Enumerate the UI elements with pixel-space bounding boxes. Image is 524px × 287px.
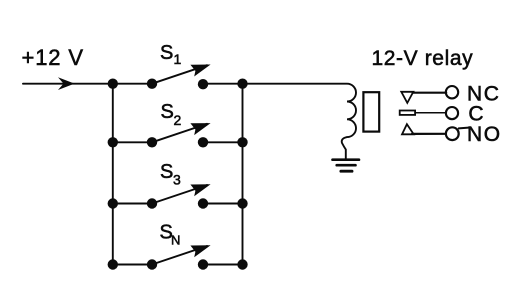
terminal C [446, 107, 458, 119]
svg-text:NO: NO [467, 123, 502, 146]
ground [333, 160, 360, 172]
terminal NO [446, 127, 459, 140]
wire NC contact [413, 92, 446, 94]
wire row1 left bus to S1 pole [113, 83, 152, 85]
node SN pole [147, 259, 157, 269]
switch S3 blade [152, 185, 207, 204]
wire row3 S3 throw to right bus [203, 203, 243, 205]
label S1 [160, 42, 182, 67]
NC contact triangle [401, 92, 413, 103]
svg-text:3: 3 [173, 172, 181, 188]
label S2 [161, 101, 182, 128]
node S3 throw [198, 198, 208, 208]
wire right bus vertical [242, 84, 244, 265]
input current arrow [58, 77, 75, 90]
wire input +12V feed [23, 83, 113, 85]
terminal NC [446, 86, 458, 98]
svg-text:S: S [160, 161, 173, 183]
NO contact triangle [402, 124, 414, 134]
C armature bar [400, 111, 415, 115]
svg-text:12-V relay: 12-V relay [372, 47, 474, 70]
relay armature box [363, 92, 379, 131]
node S1 throw [198, 79, 208, 89]
node row3 left bus junction [108, 198, 118, 208]
wire row1 S1 throw to right bus [203, 83, 243, 85]
svg-text:2: 2 [174, 112, 182, 128]
svg-text:S: S [161, 101, 174, 123]
node S2 pole [147, 137, 157, 147]
wire C contact [415, 112, 446, 114]
svg-text:N: N [171, 233, 180, 248]
wire row4 SN throw to right bus [203, 264, 243, 266]
node SN throw [198, 259, 208, 269]
switch S2 blade [152, 124, 207, 143]
node row1 left bus junction [108, 79, 118, 89]
svg-text:+12 V: +12 V [22, 45, 84, 70]
svg-text:S: S [160, 42, 173, 64]
wire to relay coil + coil L1 [243, 84, 357, 159]
wire NO stub to label [459, 127, 469, 130]
svg-text:1: 1 [174, 51, 182, 67]
node row2 left bus junction [108, 137, 118, 147]
node row1 right bus junction [237, 79, 247, 89]
wire row4 left bus to SN pole [113, 264, 152, 266]
node S1 pole [147, 79, 157, 89]
switch SN blade [152, 246, 207, 265]
wire left bus vertical [112, 84, 114, 265]
node S2 throw [198, 137, 208, 147]
wire row2 S2 throw to right bus [203, 141, 243, 143]
label SN [160, 222, 181, 248]
node row2 right bus junction [237, 137, 247, 147]
node S3 pole [147, 198, 157, 208]
node row4 right bus junction [237, 259, 247, 269]
node row4 left bus junction [108, 259, 118, 269]
switch S1 blade [152, 65, 207, 84]
node row3 right bus junction [237, 198, 247, 208]
wire row3 left bus to S3 pole [113, 203, 152, 205]
wire row2 left bus to S2 pole [113, 141, 152, 143]
label S3 [160, 161, 181, 187]
wire NO contact [412, 133, 446, 135]
